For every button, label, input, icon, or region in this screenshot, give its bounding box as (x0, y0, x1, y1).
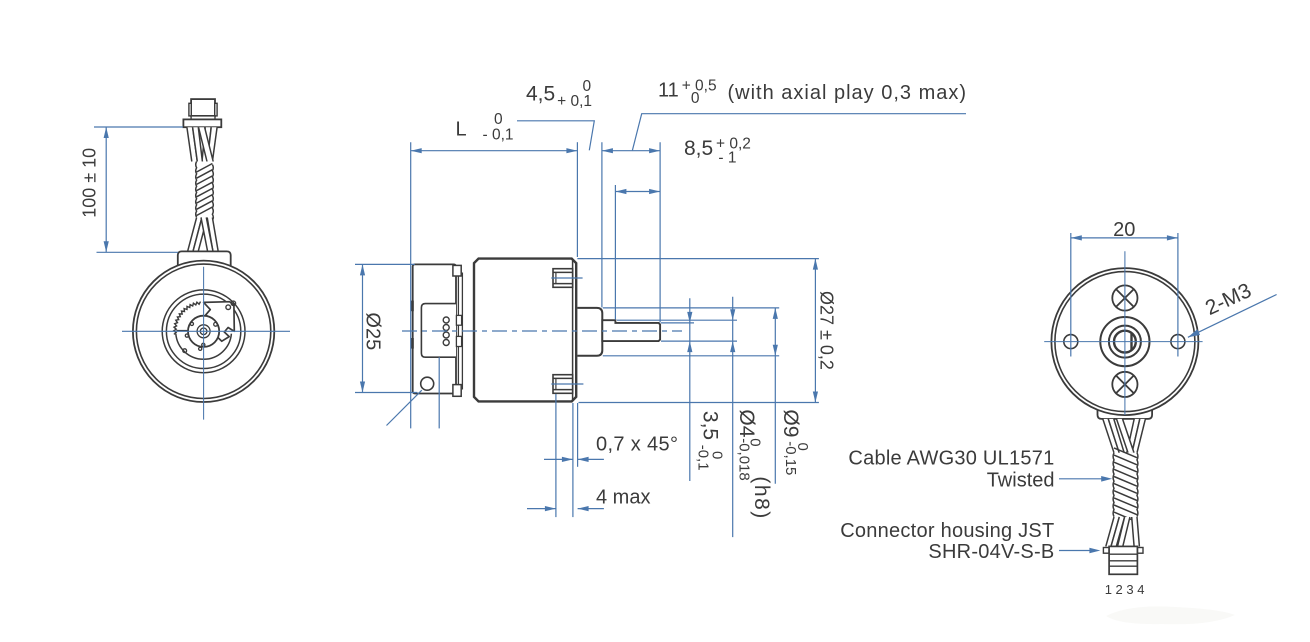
rear connector: line 1 (1109, 553, 1137, 555)
arrow to connector (1059, 550, 1094, 552)
side view: output shaft (602, 320, 660, 341)
left view: hub hole f (183, 349, 187, 353)
svg-text:Ø9: Ø9 (779, 409, 802, 437)
rear view: screw X top b (1116, 289, 1134, 307)
rear cable: twisted section (1114, 453, 1137, 517)
left view: arrow plate (204, 302, 235, 342)
svg-text:4 max: 4 max (596, 487, 650, 509)
dim L: arrow right (566, 148, 577, 153)
dim 4max: right arrow line (578, 508, 604, 510)
side view: pin circle 3 (443, 332, 449, 338)
left view: motor rim inner circle (136, 264, 270, 398)
rear cable: lower wire a (1106, 517, 1120, 546)
left view: JST connector body (top) (191, 99, 215, 116)
side view: notch rect upper (456, 315, 461, 325)
dim 20: arrow right (1167, 235, 1178, 240)
dim Ø9: arrow down (773, 345, 778, 356)
rear view: screw head top (1112, 285, 1137, 310)
left cable: lower wire b (193, 218, 207, 252)
rear view: M3 hole left (1064, 335, 1078, 349)
svg-text:4,5: 4,5 (526, 83, 555, 106)
side view: rear block (413, 264, 456, 393)
left cable: wire right a (202, 127, 211, 161)
dim 100±10: arrow down (104, 241, 109, 252)
rear connector: body (1109, 546, 1137, 574)
svg-text:0,7 x 45°: 0,7 x 45° (596, 434, 678, 456)
svg-text:Ø4: Ø4 (735, 409, 758, 437)
svg-text:-0,018: -0,018 (736, 438, 753, 481)
svg-text:3,5: 3,5 (699, 411, 722, 440)
left view: vertical centerline (203, 267, 205, 420)
dim 3,5: arrow down (687, 312, 692, 323)
dim Ø27: arrow down (813, 392, 818, 403)
dim 11: arrow right (649, 148, 660, 153)
rear view: motor rim inner (1055, 272, 1195, 412)
side view: rear block top tab (453, 265, 461, 276)
rear view: screw X top a (1116, 289, 1134, 307)
rear view: screw X bottom a (1116, 376, 1134, 394)
dim 8,5: line (615, 191, 660, 193)
dim 100±10: arrow up (104, 127, 109, 138)
left view: face circle outer (162, 290, 245, 373)
dim 100±10: dimension line (105, 127, 107, 252)
left view: hub hole e (199, 347, 202, 350)
left view: gear teeth sector (174, 302, 201, 335)
svg-text:-0,1: -0,1 (695, 445, 712, 471)
rear view: shaft circle (1114, 331, 1136, 353)
left view: connector side tab left (189, 103, 191, 116)
svg-text:8,5: 8,5 (684, 137, 713, 160)
dim 8,5: arrow right (649, 189, 660, 194)
dim 20: arrow left (1071, 235, 1082, 240)
rear view: screw X bottom b (1116, 376, 1134, 394)
side view: screw boss bottom centre tick (551, 383, 583, 385)
dim 0,7x45: right arrow (578, 457, 589, 462)
dim Ø4: line (732, 297, 734, 537)
left view: horizontal centerline (122, 330, 290, 332)
svg-text:- 1: - 1 (718, 150, 736, 167)
leader to screw hole (387, 390, 422, 425)
left view: gear sector end line (176, 330, 188, 332)
svg-text:1 2 3 4: 1 2 3 4 (1105, 582, 1145, 597)
left cable: twisted section (197, 162, 213, 218)
left view: hub hole b (214, 322, 218, 326)
ext shaft top (617, 319, 737, 321)
rear view: boss circle (1100, 317, 1149, 366)
dim 4max: left arrow (545, 506, 556, 511)
left view: face circle inner (166, 294, 240, 368)
dim ext line at gearbox face (576, 142, 578, 257)
dim ext line at boss face (601, 142, 603, 307)
left cable: wire right b (207, 127, 217, 161)
dim 100±10: bottom extension line (97, 251, 179, 253)
side view: lamination line 2 (461, 273, 463, 390)
rear view: M3 hole right (1171, 335, 1185, 349)
rear cable: lower wire c (1132, 517, 1140, 546)
rear view: M3 left tick (1070, 233, 1072, 357)
rear cable: lower wire b (1111, 517, 1125, 546)
svg-text:L: L (456, 118, 467, 140)
svg-text:(h8): (h8) (750, 476, 773, 519)
left cable: lower wire c (207, 218, 218, 252)
dim ext line at shaft step (614, 185, 616, 320)
left view: connector flange (183, 119, 221, 127)
left cable: crossing wire (199, 127, 214, 161)
left view: hub hole d (202, 343, 205, 346)
rear connector: line 2 (1109, 560, 1137, 562)
svg-text:-0,15: -0,15 (782, 441, 799, 475)
dim Ø27: top extension (577, 258, 819, 260)
svg-text:Connector housing JST: Connector housing JST (840, 520, 1054, 542)
left cable: wire left b (193, 127, 203, 161)
ext shaft flat (661, 322, 694, 324)
dim ext line at rear block left (410, 142, 412, 428)
svg-text:11: 11 (658, 80, 679, 102)
side view: gearbox front face inner line (572, 260, 574, 400)
arrow to twisted cable (1059, 478, 1105, 480)
dim 0,7x45: right arrow line (578, 458, 604, 460)
svg-text:0: 0 (494, 111, 503, 128)
side view: mounting screw boss bottom (553, 375, 573, 394)
ext shaft bottom (661, 340, 737, 342)
dim 3,5: line (689, 298, 691, 481)
rear view: bearing circle (1109, 326, 1141, 358)
faint watermark (1106, 606, 1235, 624)
side view: weld tick upper (411, 301, 414, 312)
left view: hub hole c (185, 334, 188, 337)
dim L: arrow left (411, 148, 422, 153)
side view: notch rect lower (456, 336, 461, 346)
rear cable: lower crossing wire (1118, 517, 1130, 546)
dim 8,5: arrow left (615, 189, 626, 194)
rear view: horizontal centreline (1044, 341, 1202, 343)
side view: screw hole circle (421, 377, 434, 390)
rear view: vertical centreline (1124, 251, 1126, 415)
dim 11: leader (632, 114, 966, 151)
dim Ø9: line (774, 308, 776, 484)
leader 2-M3 arrowhead (1188, 329, 1200, 337)
left view: shaft ring inner (200, 328, 207, 335)
side view: connector housing on block (421, 304, 456, 358)
rear connector: wing right (1137, 548, 1143, 554)
side view: weld tick lower (411, 338, 414, 349)
side view: screw boss top centre tick (551, 277, 582, 279)
svg-text:(with axial play 0,3 max): (with axial play 0,3 max) (728, 82, 968, 104)
rear view: screw head bottom (1112, 372, 1137, 397)
left cable: lower crossing wire (201, 218, 213, 252)
dim Ø25: top extension (355, 263, 415, 265)
svg-text:Ø25: Ø25 (362, 312, 384, 350)
side view: rear block bottom tab (453, 385, 461, 397)
svg-text:Cable AWG30 UL1571: Cable AWG30 UL1571 (848, 448, 1054, 470)
dim 100±10: top extension line (94, 126, 183, 128)
side view: dashed centreline (402, 330, 682, 332)
svg-text:0: 0 (691, 90, 700, 107)
dim 3,5: arrow up (687, 341, 692, 352)
dim Ø4: arrow up (730, 341, 735, 352)
svg-text:Twisted: Twisted (987, 470, 1055, 492)
left view: connector side tab right (215, 103, 217, 116)
leader 2-M3 (1188, 295, 1277, 338)
left cable: wire left a (187, 127, 197, 161)
dim 20: line (1071, 237, 1178, 239)
dim Ø25: arrow down (360, 382, 365, 393)
dim 4max: left arrow line (527, 508, 556, 510)
side view: pin circle 4 (443, 340, 449, 346)
left view: lower arc (176, 334, 232, 360)
side view: pin circle 2 (443, 325, 449, 331)
rear cable: wire left a (1103, 419, 1119, 453)
dim Ø25: line (362, 264, 364, 392)
side view: front boss (577, 308, 602, 356)
rear view: cable neck (1098, 405, 1153, 419)
dim ext line chamfer right (577, 403, 579, 467)
left view: hub circle (188, 316, 219, 347)
rear view: motor outer circle (1051, 268, 1198, 415)
dim Ø25: bottom extension (355, 392, 417, 394)
dim 11: arrow left (602, 148, 613, 153)
dim 0,7x45: left arrow line (544, 458, 573, 460)
side view: mounting screw boss top (553, 269, 573, 288)
dim ext line chamfer left (572, 403, 574, 517)
svg-text:+ 0,1: + 0,1 (557, 93, 592, 110)
svg-text:20: 20 (1113, 219, 1135, 241)
dim 4,5: leader (517, 121, 594, 151)
side view: pin circle 1 (443, 317, 449, 323)
dim Ø27: arrow up (813, 259, 818, 270)
left cable: lower wire a (188, 218, 202, 252)
leader from connector down (438, 357, 440, 428)
rear view: M3 right tick (1177, 233, 1179, 357)
svg-text:- 0,1: - 0,1 (483, 127, 514, 144)
left view: plate hole 1 (226, 305, 231, 310)
rear cable: crossing wire (1117, 419, 1135, 453)
dim Ø27: bottom extension (579, 402, 819, 404)
dim Ø25: arrow up (360, 264, 365, 275)
dim ext line at shaft end (659, 142, 661, 322)
dim 4max: right arrow (578, 506, 589, 511)
dim 0,7x45: left arrow (562, 457, 573, 462)
dim 11: line (602, 150, 660, 152)
rear cable: wire right b (1132, 419, 1145, 453)
rear view: shaft flat chord (1130, 333, 1132, 350)
side view: lamination line 1 (457, 276, 459, 385)
rear connector: line 3 (1109, 565, 1137, 567)
dim Ø4: arrow down (730, 309, 735, 320)
left view: motor outer circle (133, 261, 274, 402)
dim L: line (411, 150, 578, 152)
dim Ø27: line (814, 259, 816, 403)
dim ext line tab inner edge (555, 394, 557, 517)
ext boss bottom (603, 355, 779, 357)
svg-text:100 ± 10: 100 ± 10 (80, 148, 100, 218)
rear cable: wire left b (1108, 419, 1124, 453)
left view: connector neck (191, 116, 215, 120)
rear cable: wire right a (1127, 419, 1140, 453)
svg-text:Ø27 ± 0,2: Ø27 ± 0,2 (817, 291, 837, 370)
left view: cable entry neck on motor (178, 251, 231, 267)
dim Ø9: arrow up (773, 308, 778, 319)
svg-text:SHR-04V-S-B: SHR-04V-S-B (928, 541, 1054, 563)
side view: gearbox block (474, 259, 576, 402)
rear connector: wing left (1103, 548, 1109, 554)
left view: plate hole 2 (231, 301, 236, 306)
left view: hub hole a (190, 322, 193, 325)
left view: shaft ring outer (197, 325, 210, 338)
ext boss top (603, 307, 779, 309)
